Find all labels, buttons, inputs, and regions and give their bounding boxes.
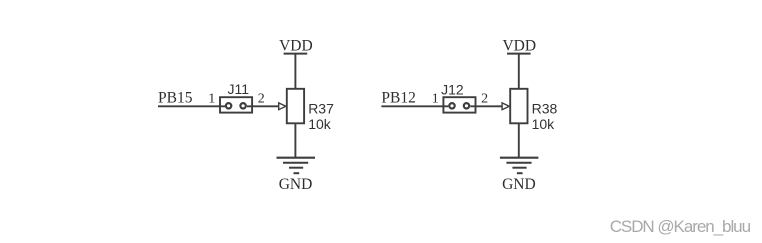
svg-text:R38: R38 [532, 100, 558, 116]
svg-text:VDD: VDD [279, 37, 313, 54]
resistor R37 body [287, 89, 304, 124]
wiper arrow into R38 [502, 103, 509, 110]
svg-text:J11: J11 [228, 81, 250, 97]
ground symbol (left) [277, 158, 316, 174]
wire VDD to R37 top [294, 54, 296, 89]
wire PB15 to J11 pin 1 [158, 105, 225, 107]
svg-text:GND: GND [279, 176, 313, 193]
svg-text:1: 1 [432, 91, 439, 106]
wire J12 pin 2 to R38 wiper [470, 105, 502, 107]
wire R38 bottom to ground [518, 123, 520, 157]
wire VDD to R38 top [518, 54, 520, 89]
wire J11 pin 2 to R37 wiper [247, 105, 279, 107]
ground symbol (right) [500, 158, 539, 174]
svg-text:GND: GND [502, 176, 536, 193]
jumper J11 body [220, 97, 252, 112]
svg-text:R37: R37 [308, 100, 334, 116]
svg-text:VDD: VDD [503, 37, 537, 54]
svg-text:J12: J12 [441, 81, 464, 97]
svg-text:PB15: PB15 [158, 90, 193, 107]
resistor R38 body [510, 89, 527, 124]
svg-text:1: 1 [208, 91, 215, 106]
svg-text:10k: 10k [308, 116, 332, 132]
power bar VDD (right) [507, 53, 531, 55]
wire R37 bottom to ground [294, 123, 296, 157]
jumper J12 body [443, 97, 475, 112]
wire PB12 to J12 pin 1 [381, 105, 448, 107]
svg-text:CSDN @Karen_bluu: CSDN @Karen_bluu [610, 217, 751, 236]
power bar VDD (left) [284, 53, 308, 55]
svg-text:2: 2 [258, 91, 265, 106]
svg-text:2: 2 [481, 91, 488, 106]
wiper arrow into R37 [279, 103, 286, 110]
svg-text:10k: 10k [532, 116, 556, 132]
svg-text:PB12: PB12 [381, 90, 415, 107]
